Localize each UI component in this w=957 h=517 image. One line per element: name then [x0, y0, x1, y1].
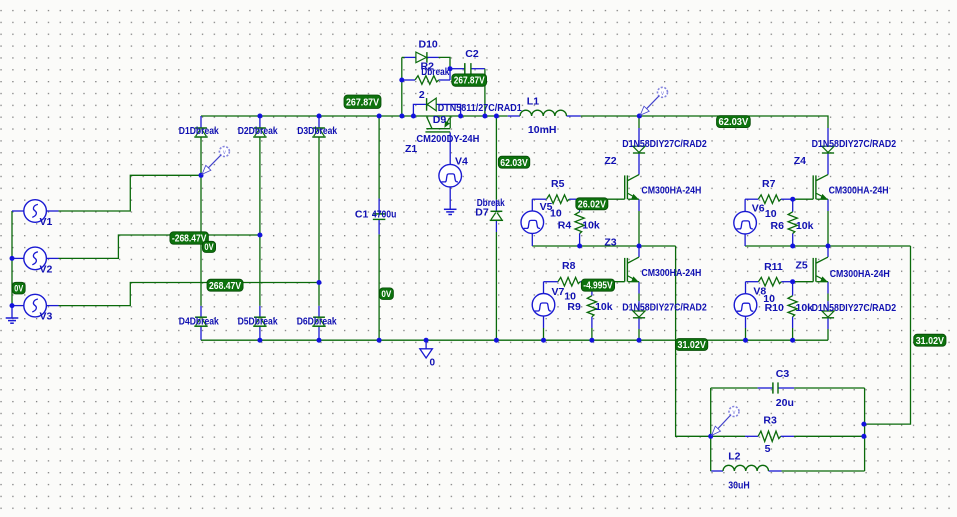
junction phase A node: [199, 173, 204, 178]
junction load left / feed: [708, 434, 713, 439]
IGBT Z1: [426, 128, 450, 130]
svg-text:Z3: Z3: [604, 236, 616, 248]
wire rectifier leg 3 D3 top pin: [318, 116, 320, 128]
junction phase C / leg3: [317, 280, 322, 285]
svg-text:R7: R7: [762, 178, 776, 190]
wire R10 to bottom rail: [792, 328, 794, 340]
wire Z4 emitter pin: [827, 199, 829, 211]
svg-text:V4: V4: [455, 156, 468, 168]
diode below Z3: [633, 311, 645, 317]
svg-text:V3: V3: [40, 311, 53, 323]
wire V2 right pin: [46, 257, 58, 259]
node voltage label 268.47V: [207, 279, 243, 292]
wire R9 to bottom rail: [591, 328, 593, 340]
wire C2 left pin: [450, 68, 465, 70]
junction mid rail / Z2 emitter: [637, 244, 642, 249]
svg-text:D1Dbreak: D1Dbreak: [179, 125, 219, 137]
pulse source V7: [532, 294, 555, 317]
wire Z4 collector pin: [827, 153, 829, 175]
junction top bus / C2 branch: [482, 114, 487, 119]
wire Z4 emitter to mid rail: [827, 211, 829, 246]
wire D10 anode corner: [402, 56, 405, 58]
wire D10 anode pin: [405, 56, 416, 58]
svg-text:10k: 10k: [796, 220, 814, 232]
svg-text:CM200DY-24H: CM200DY-24H: [416, 134, 479, 145]
wire V8 top pin: [745, 282, 747, 294]
wire R10 bottom pin: [792, 317, 794, 328]
junction top bus / snubber left: [399, 114, 404, 119]
svg-text:D1N58DIY27C/RAD2: D1N58DIY27C/RAD2: [622, 302, 707, 313]
diode D9: [426, 98, 428, 111]
wire R6 bottom pin: [792, 234, 794, 247]
diode D4: [195, 316, 207, 318]
wire R11 right pin: [781, 281, 792, 283]
wire R3 row right: [794, 435, 865, 437]
wire Z2 emitter pin: [638, 199, 640, 211]
wire leg2 D5 top pin: [259, 306, 261, 317]
svg-text:L2: L2: [728, 450, 740, 462]
wire R2 right pin: [439, 79, 450, 81]
wire Z3 emitter to lower diode: [638, 294, 640, 302]
svg-text:267.87V: 267.87V: [454, 76, 485, 87]
junction D10-C2 node: [448, 66, 453, 71]
resistor R11: [758, 277, 781, 286]
node voltage label 62.03V (D7): [498, 156, 530, 169]
wire V1 to phase A junction: [59, 175, 202, 211]
wire D9 left loop: [413, 104, 426, 116]
wire Z5 collector pin: [827, 246, 829, 257]
wire lower diode to bottom rail right leg: [827, 329, 829, 340]
wire lower diode to bottom rail left leg: [638, 329, 640, 340]
wire V5 top pin: [531, 199, 533, 211]
wire gate wire to Z2: [581, 198, 625, 200]
capacitor C1: [373, 213, 386, 215]
wire Z3 collector pin: [638, 246, 640, 257]
junction load right / R3: [861, 434, 866, 439]
wire lower diode top pin right leg: [827, 301, 829, 311]
svg-text:D9: D9: [433, 114, 447, 126]
wire R9 bottom pin: [591, 317, 593, 328]
wire V5 to R5 pin: [532, 198, 546, 200]
svg-text:v: v: [223, 150, 226, 156]
wire R9 top pin: [591, 282, 593, 296]
junction top bus / leg2: [257, 114, 262, 119]
node voltage label 0V (left rail): [12, 282, 25, 294]
wire output feed from left leg midpoint: [676, 246, 711, 436]
wire C3 left pin: [758, 387, 773, 389]
svg-text:R5: R5: [551, 178, 565, 190]
wire V7 top pin: [543, 282, 545, 294]
resistor R10: [788, 296, 797, 317]
wire gate wire to Z4: [793, 198, 814, 200]
svg-text:v: v: [733, 410, 736, 416]
wire leg Z2 from bus: [638, 116, 640, 128]
wire load loop left vertical: [710, 388, 712, 471]
ground (V4): [444, 208, 457, 210]
wire leg3 below D6 to bottom rail: [318, 326, 320, 340]
node voltage label 267.87V (C2): [452, 74, 487, 87]
wire mid rail left leg: [532, 245, 675, 247]
wire Z3 emitter pin: [638, 282, 640, 294]
wire lower diode bottom pin right leg: [827, 318, 829, 329]
resistor R4: [575, 212, 584, 234]
svg-text:D3Dbreak: D3Dbreak: [297, 125, 337, 137]
wire Z2 collector pin: [638, 153, 640, 175]
wire ground 0 stub: [425, 340, 427, 349]
svg-text:31.02V: 31.02V: [678, 340, 707, 351]
junction top bus / inverter left leg: [637, 114, 642, 119]
junction phase B / leg2: [257, 233, 262, 238]
wire C3 right pin: [779, 387, 795, 389]
wire C2 right branch down to bus: [484, 69, 486, 116]
inductor L1: [520, 110, 567, 116]
node voltage label 267.87V (bus): [344, 95, 381, 109]
wire D7 branch lower: [495, 232, 497, 340]
svg-text:R10: R10: [765, 302, 784, 314]
junction bottom rail / D7: [494, 338, 499, 343]
svg-text:CM300HA-24H: CM300HA-24H: [641, 185, 701, 196]
svg-text:DTN5811/27C/RAD1: DTN5811/27C/RAD1: [438, 103, 522, 114]
wire R2 left pin: [402, 79, 415, 81]
diode D5: [254, 316, 266, 318]
wire V8 to bottom rail: [745, 328, 747, 340]
svg-text:Z2: Z2: [604, 155, 616, 167]
IGBT Z2: [624, 175, 626, 199]
wire V7 bottom pin: [543, 316, 545, 328]
capacitor C2: [464, 63, 466, 74]
wire Z1 gate pin to V4: [449, 132, 451, 164]
svg-text:Z4: Z4: [794, 155, 806, 167]
wire rectifier leg 1 vertical: [200, 116, 202, 128]
wire D10 cathode pin: [427, 56, 439, 58]
svg-text:Dbreak: Dbreak: [421, 66, 449, 78]
svg-text:R8: R8: [562, 260, 576, 272]
wire rectifier leg 2 D2 top pin: [259, 116, 261, 128]
node voltage label 26.02V: [576, 198, 608, 211]
svg-text:L1: L1: [527, 96, 539, 108]
AC source V3: [24, 294, 47, 317]
resistor R6: [788, 212, 797, 234]
wire R5 right pin: [569, 198, 581, 200]
IGBT Z3: [624, 258, 626, 282]
svg-text:0V: 0V: [204, 242, 213, 252]
junction left rail / V3: [10, 303, 15, 308]
voltage probe at load node: [729, 407, 739, 417]
wire ground stub (left rail): [11, 306, 13, 318]
IGBT Z4: [812, 175, 814, 199]
wire R3 right pin: [781, 435, 794, 437]
wire R4 bottom pin: [579, 234, 581, 247]
wire V7 to bottom rail: [543, 328, 545, 340]
capacitor C3: [772, 382, 774, 393]
wire V6 bottom pin: [744, 234, 746, 246]
wire leg2 below D5 to bottom rail: [259, 326, 261, 340]
svg-text:2: 2: [419, 89, 425, 101]
svg-text:0V: 0V: [14, 283, 23, 293]
wire R2 right vertical to C2 node: [449, 69, 451, 80]
node voltage label -268.47V: [170, 232, 209, 245]
wire V6 top pin: [744, 199, 746, 211]
diode D2: [254, 127, 266, 129]
wire Z5 emitter to lower diode: [827, 294, 829, 302]
svg-text:Z5: Z5: [796, 260, 808, 272]
wire top DC bus from rectifier to L1: [201, 115, 508, 117]
svg-text:R11: R11: [764, 261, 783, 273]
wire V2 to phase B junction: [59, 235, 260, 258]
diode above Z2: [633, 146, 645, 152]
wire D10 to C2 corner: [439, 57, 451, 68]
wire D7 branch upper: [495, 116, 497, 200]
svg-text:V1: V1: [40, 216, 53, 228]
svg-text:D7: D7: [475, 207, 489, 219]
wire V8 bottom pin: [745, 316, 747, 328]
junction bottom rail / leg2: [257, 338, 262, 343]
wire V1 left pin: [12, 210, 24, 212]
wire R8 right pin: [580, 281, 592, 283]
svg-text:R4: R4: [558, 220, 572, 232]
node voltage label 31.02V (right feed): [914, 334, 946, 347]
svg-text:10: 10: [765, 208, 777, 220]
wire L1 left pin: [508, 115, 520, 117]
junction top bus / C1 branch: [377, 114, 382, 119]
wire L2 right pin: [769, 470, 782, 472]
junction snubber vertical / R2: [399, 78, 404, 83]
wire leg1 below D4 to bottom rail: [200, 326, 202, 340]
svg-text:Z1: Z1: [405, 143, 417, 155]
ground (left rail): [6, 317, 19, 319]
svg-text:4700u: 4700u: [372, 208, 397, 220]
wire leg1 phase A node down to D4: [200, 175, 202, 306]
wire V7 to R8 pin: [544, 281, 558, 283]
wire left rail joining V1 V2 V3: [11, 211, 13, 306]
svg-text:R6: R6: [771, 220, 785, 232]
svg-text:D5Dbreak: D5Dbreak: [238, 315, 278, 327]
svg-text:5: 5: [765, 443, 771, 455]
resistor R7: [758, 195, 781, 204]
svg-text:10k: 10k: [595, 301, 613, 313]
junction bottom rail / leg3: [317, 338, 322, 343]
diode below Z5: [822, 311, 834, 317]
svg-text:D10: D10: [419, 39, 438, 51]
junction bottom rail / V7: [541, 338, 546, 343]
wire V6 to R7 pin: [745, 198, 758, 200]
wire R3 row left: [711, 435, 745, 437]
junction gate Z5 / R10: [790, 279, 795, 284]
svg-text:31.02V: 31.02V: [916, 336, 945, 347]
wire lower diode bottom pin left leg: [638, 318, 640, 329]
svg-text:CM300HA-24H: CM300HA-24H: [829, 185, 889, 196]
wire leg1 below D1 to phase A node: [200, 137, 202, 175]
svg-text:D1N58DIY27C/RAD2: D1N58DIY27C/RAD2: [812, 303, 897, 314]
pulse source V6: [734, 211, 757, 234]
voltage probe at phase A node: [219, 147, 229, 157]
AC source V1: [24, 200, 47, 223]
svg-text:10: 10: [550, 207, 562, 219]
node voltage label 62.03V (bus right): [717, 116, 751, 129]
svg-text:10k: 10k: [582, 220, 600, 232]
wire C3 row right: [794, 387, 865, 389]
AC source V2: [24, 247, 47, 270]
wire L2 row left: [710, 470, 713, 472]
wire snubber left vertical: [401, 57, 403, 116]
wire mid rail right leg: [745, 245, 910, 247]
wire V4 bottom pin to ground: [449, 187, 451, 209]
junction bottom rail / R9: [589, 338, 594, 343]
junction top bus / D9 right: [458, 114, 463, 119]
wire leg3 below D3 down to D6: [318, 137, 320, 306]
svg-text:268.47V: 268.47V: [209, 281, 241, 292]
svg-text:0: 0: [430, 358, 436, 369]
svg-text:CM300HA-24H: CM300HA-24H: [641, 268, 701, 279]
wire V3 right pin: [46, 305, 58, 307]
node voltage label 0V (phase B): [202, 241, 215, 252]
wire C2 right pin: [471, 68, 485, 70]
wire load loop right vertical: [864, 388, 866, 471]
pulse source V8: [734, 294, 757, 317]
svg-text:D4Dbreak: D4Dbreak: [179, 315, 219, 327]
diode above Z4: [822, 146, 834, 152]
svg-text:62.03V: 62.03V: [719, 117, 749, 128]
svg-text:C3: C3: [776, 368, 790, 380]
svg-text:R3: R3: [763, 414, 777, 426]
svg-text:C2: C2: [465, 48, 479, 60]
wire leg3 D6 top pin: [318, 306, 320, 317]
wire C3 row left: [711, 387, 758, 389]
svg-text:CM300HA-24H: CM300HA-24H: [830, 269, 890, 280]
svg-text:V7: V7: [552, 286, 565, 298]
junction load right / feed: [861, 422, 866, 427]
svg-text:V6: V6: [752, 202, 765, 214]
IGBT Z5: [812, 258, 814, 282]
diode D7: [491, 210, 503, 212]
resistor R8: [558, 277, 580, 286]
svg-text:-268.47V: -268.47V: [172, 234, 207, 245]
svg-text:20u: 20u: [776, 397, 794, 409]
wire leg2 below D2 down to D5: [259, 137, 261, 306]
junction gate Z4 / R6: [790, 197, 795, 202]
diode D6: [313, 316, 325, 318]
svg-text:10mH: 10mH: [528, 124, 557, 136]
junction left rail / V2: [10, 256, 15, 261]
inductor L2: [723, 465, 769, 471]
svg-text:R9: R9: [567, 301, 581, 313]
wire gate wire to Z5: [793, 281, 814, 283]
junction bottom rail / V8: [743, 338, 748, 343]
wire V5 bottom pin: [531, 233, 533, 246]
diode D3: [313, 127, 325, 129]
svg-text:-4.995V: -4.995V: [583, 281, 613, 292]
svg-text:267.87V: 267.87V: [346, 97, 379, 108]
wire C1 bottom pin: [378, 219, 380, 234]
wire L2 row right: [782, 470, 865, 472]
junction top bus / D7 branch: [494, 114, 499, 119]
junction top bus / D9 left: [411, 114, 416, 119]
svg-text:10k: 10k: [796, 302, 814, 314]
wire D7 bottom pin: [495, 220, 497, 232]
diode D1: [195, 127, 207, 129]
node voltage label -4.995V: [581, 279, 614, 292]
junction mid rail / R6: [790, 244, 795, 249]
wire V2 left pin: [12, 257, 24, 259]
wire leg Z2 diode top pin: [638, 128, 640, 146]
ground 0 (bottom rail): [420, 349, 433, 358]
node voltage label 31.02V (bottom rail): [676, 339, 708, 352]
wire D7 top pin: [495, 200, 497, 212]
wire gate wire to Z3: [592, 281, 625, 283]
wire L1 right pin: [567, 115, 581, 117]
wire Z5 emitter pin: [827, 282, 829, 294]
svg-text:30uH: 30uH: [728, 480, 750, 492]
junction bottom rail / C1: [377, 338, 382, 343]
svg-text:D6Dbreak: D6Dbreak: [297, 315, 337, 327]
voltage probe at inverter bus node: [658, 87, 668, 97]
svg-text:D1N58DIY27C/RAD2: D1N58DIY27C/RAD2: [812, 139, 897, 150]
junction bottom rail / ground: [424, 338, 429, 343]
wire C1 branch upper: [378, 116, 380, 199]
junction mid rail / Z4 emitter: [826, 244, 831, 249]
wire L2 left pin: [711, 470, 723, 472]
svg-text:0V: 0V: [381, 289, 391, 299]
junction bottom rail / Z3 leg: [637, 338, 642, 343]
wire Z2 emitter to mid rail: [638, 211, 640, 246]
wire output feed from right leg midpoint: [865, 246, 911, 424]
wire lower diode top pin left leg: [638, 301, 640, 311]
wire V3 to phase C junction: [59, 283, 320, 306]
resistor R3: [758, 431, 781, 441]
wire D9 right loop: [436, 104, 460, 116]
svg-text:D2Dbreak: D2Dbreak: [238, 125, 278, 137]
svg-text:V2: V2: [40, 264, 53, 276]
svg-text:v: v: [661, 91, 664, 97]
wire R7 right pin: [781, 198, 793, 200]
wire V1 right pin: [46, 210, 58, 212]
svg-text:D1N58DIY27C/RAD2: D1N58DIY27C/RAD2: [622, 139, 707, 150]
junction mid rail / R4: [577, 244, 582, 249]
wire V3 left pin: [12, 305, 24, 307]
pulse source V5: [521, 211, 544, 234]
svg-text:C1: C1: [355, 208, 369, 220]
wire leg Z4 diode top pin: [827, 128, 829, 146]
pulse source V4: [439, 164, 462, 187]
wire R4 top pin: [579, 199, 581, 212]
junction top bus / leg3: [317, 114, 322, 119]
wire bottom ground rail: [201, 339, 828, 341]
wire leg1 D4 top pin: [200, 306, 202, 317]
resistor R9: [587, 296, 596, 317]
wire R10 top pin: [792, 282, 794, 296]
wire R3 left pin: [745, 435, 758, 437]
junction bottom rail / R10: [790, 338, 795, 343]
resistor R5: [547, 195, 570, 204]
svg-text:62.03V: 62.03V: [500, 158, 528, 169]
wire C1 top pin: [378, 199, 380, 214]
resistor R2: [415, 76, 439, 85]
wire R6 top pin: [792, 199, 794, 212]
wire V8 to R11 pin: [746, 281, 759, 283]
wire C1 branch lower: [378, 234, 380, 340]
node voltage label 0V (C1): [379, 288, 393, 300]
svg-text:26.02V: 26.02V: [578, 199, 606, 210]
diode D10: [416, 52, 427, 63]
wire top DC bus from L1 to inverter right leg with corner down: [581, 116, 828, 128]
